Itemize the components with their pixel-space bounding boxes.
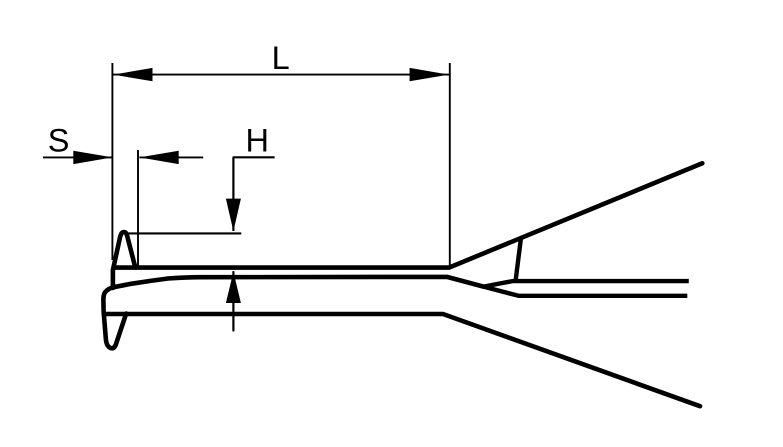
arrowhead S pointing left <box>139 151 178 164</box>
extension line S second (x=138) <box>137 150 139 266</box>
upper jaw bent tip (up spike) and left face <box>113 232 135 288</box>
dimension line L <box>113 74 449 76</box>
upper jaw top edge and upper arm diagonal <box>114 163 702 267</box>
dimension line S right tail <box>139 156 203 158</box>
arrowhead S pointing right <box>73 151 112 164</box>
dimension line H upper vertical <box>232 157 234 231</box>
jaw boundary short line <box>516 239 521 280</box>
inner jaw upper horizontal line <box>484 281 689 287</box>
svg-text:L: L <box>272 40 290 76</box>
svg-text:H: H <box>246 123 269 159</box>
extension line right (x=449.8) <box>449 63 451 266</box>
lower jaw top edge curve to vertex <box>112 277 484 288</box>
arrowhead H pointing down <box>226 199 241 232</box>
dimension line H lower vertical <box>232 272 234 331</box>
leader line H <box>233 156 275 158</box>
extension line left (x=112.4) <box>111 63 113 260</box>
tip-top reference line <box>127 232 241 234</box>
svg-text:S: S <box>48 122 70 158</box>
lower jaw rounded heel and down spike outline <box>103 288 126 349</box>
dimension line S left tail <box>43 156 113 158</box>
arrowhead L right <box>410 68 449 81</box>
lower jaw bottom edge and lower arm diagonal <box>104 314 700 406</box>
arrowhead L left <box>113 68 152 81</box>
arrowhead H pointing up <box>226 272 241 303</box>
inner jaw lower horizontal line <box>484 287 688 296</box>
